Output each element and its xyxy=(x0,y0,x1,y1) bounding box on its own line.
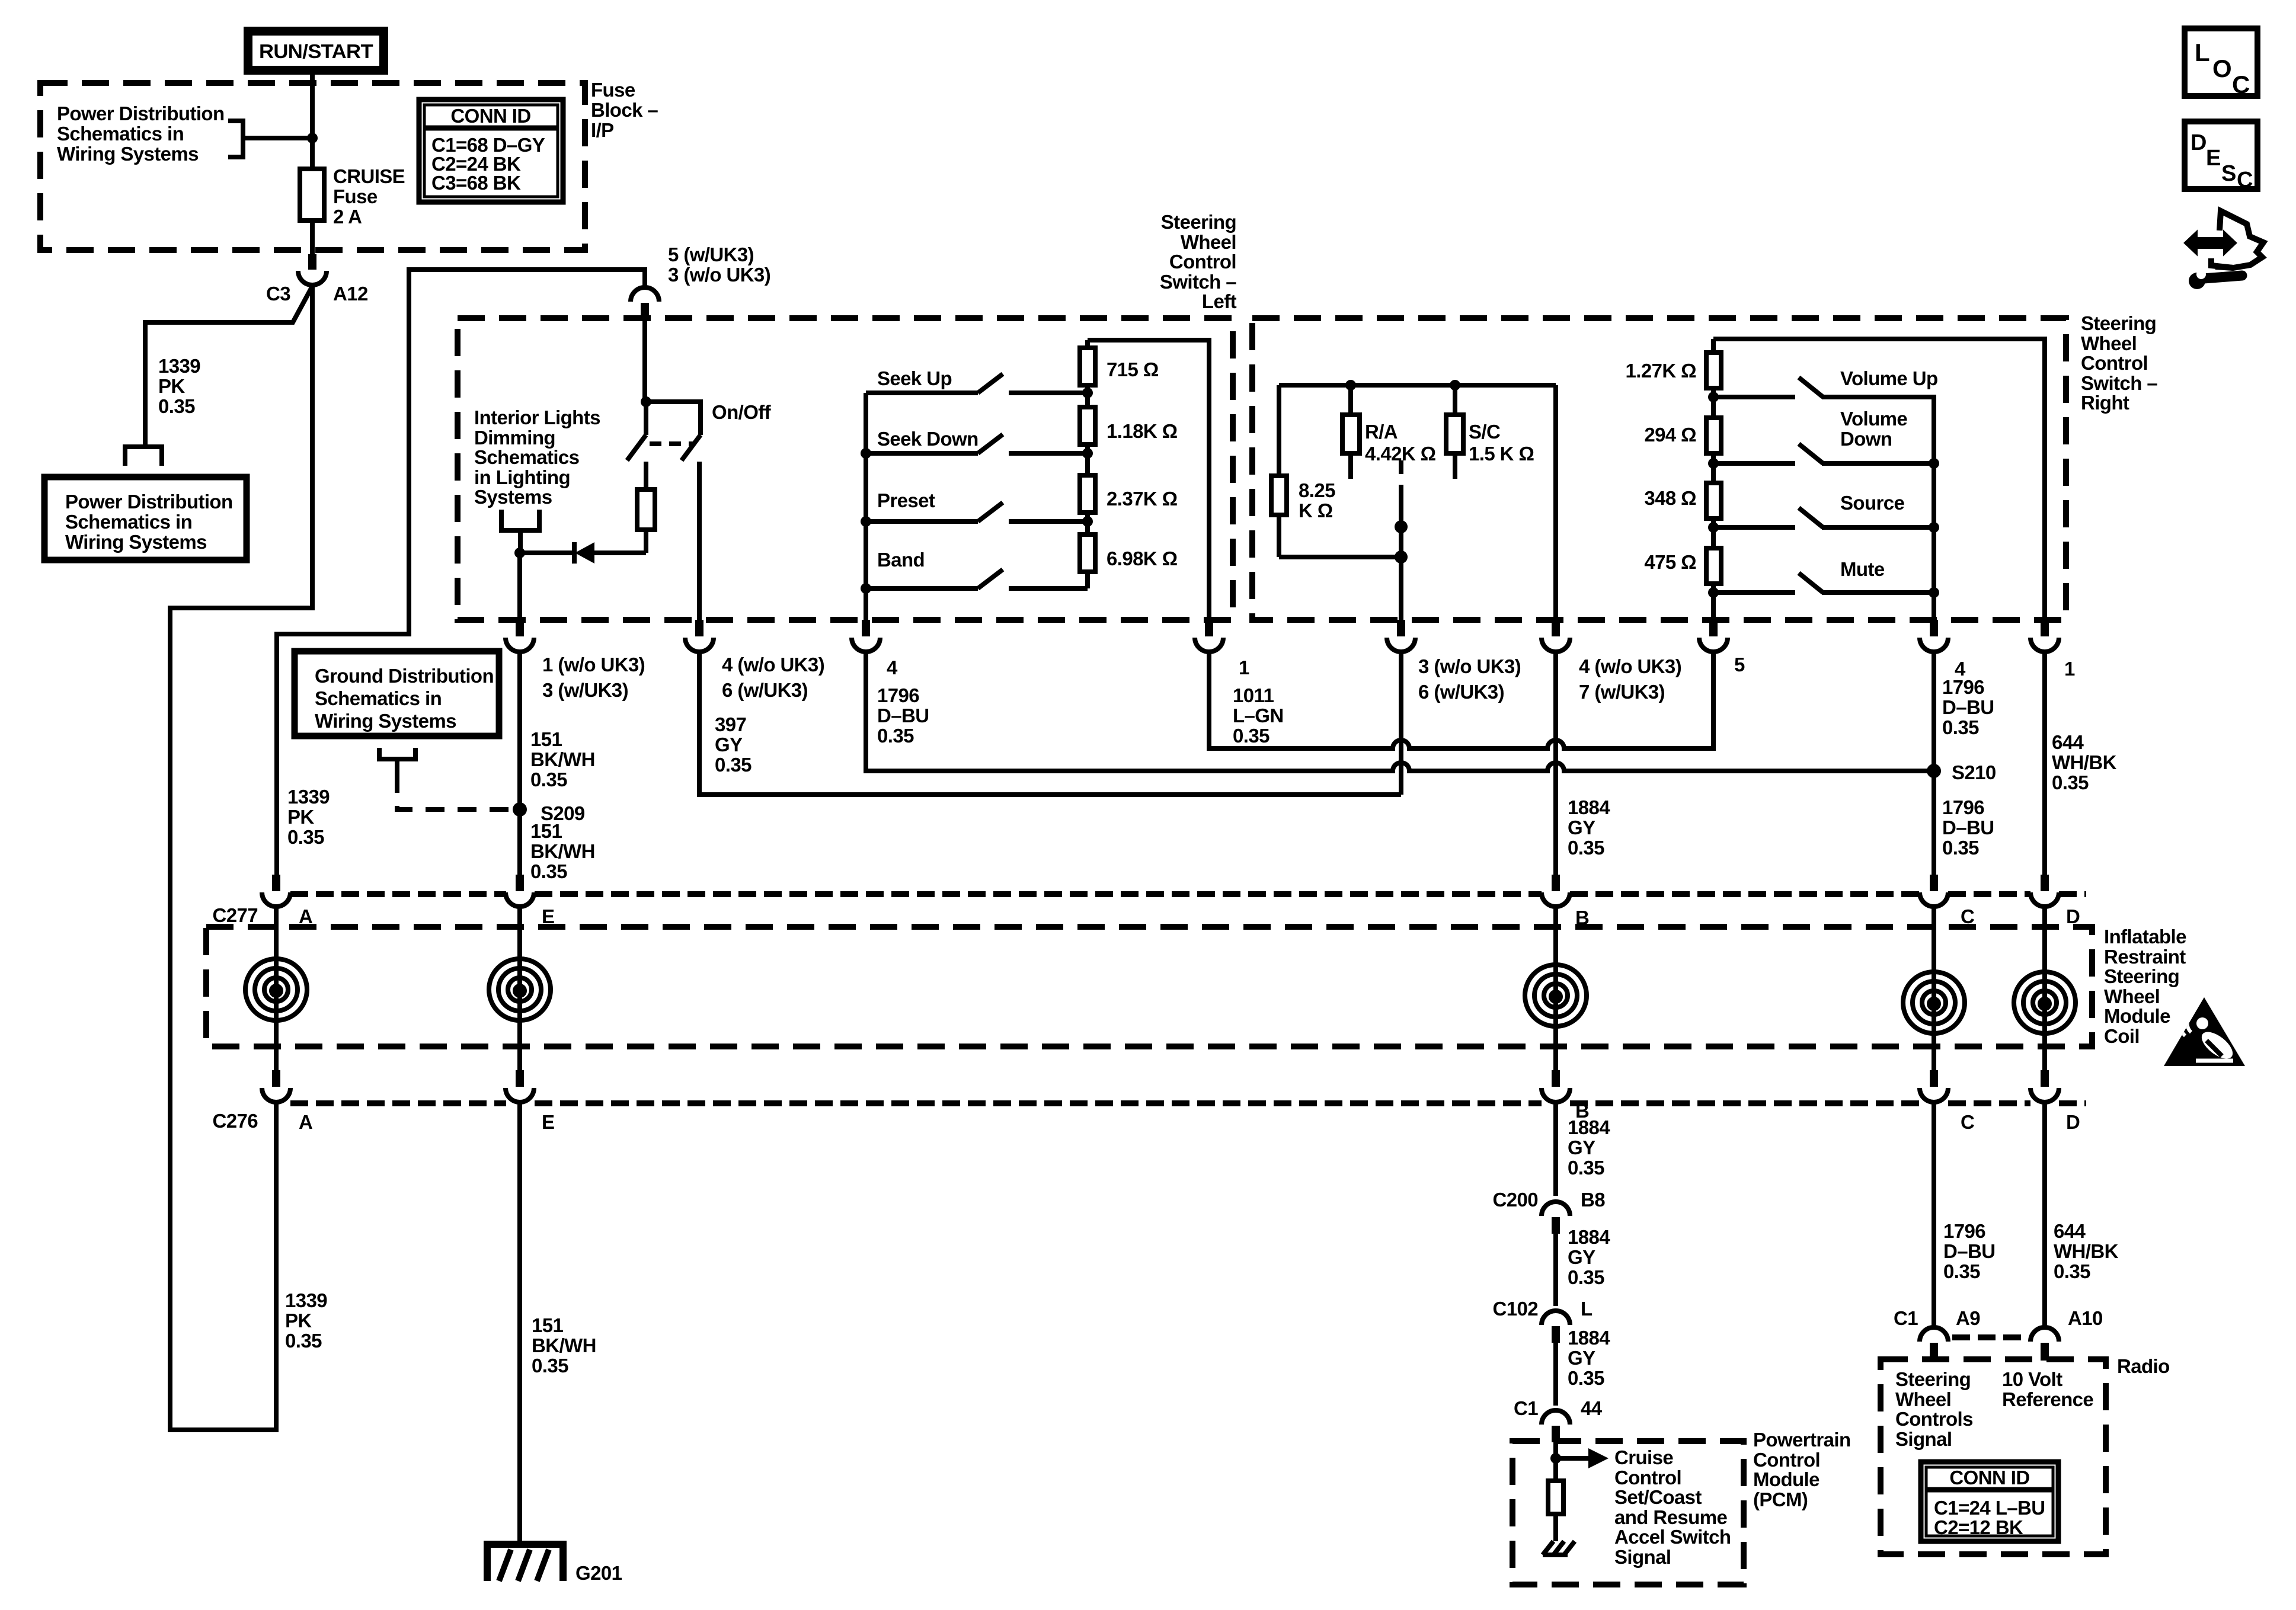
svg-text:Schematics: Schematics xyxy=(474,446,579,468)
svg-text:Mute: Mute xyxy=(1840,558,1885,580)
svg-text:1796: 1796 xyxy=(1942,796,1984,818)
svg-text:2.37K Ω: 2.37K Ω xyxy=(1107,488,1178,510)
svg-text:6.98K Ω: 6.98K Ω xyxy=(1107,548,1178,569)
coil E xyxy=(489,907,551,1070)
label 644 WH/BK 0.35 radio xyxy=(2054,1220,2119,1282)
label 1339 PK 0.35 above C277-A xyxy=(287,786,330,848)
connector 4 left box seek xyxy=(852,620,880,652)
svg-text:4 (w/o UK3): 4 (w/o UK3) xyxy=(722,654,824,676)
svg-text:E: E xyxy=(2206,146,2221,171)
label Steering Wheel Control Switch - Left xyxy=(1160,211,1237,312)
svg-text:C2=12 BK: C2=12 BK xyxy=(1934,1516,2023,1538)
svg-text:Wheel: Wheel xyxy=(1895,1388,1951,1410)
connector C1 pin 44 xyxy=(1542,1410,1570,1442)
svg-text:S: S xyxy=(2221,161,2236,186)
wire RUN/START to fuse xyxy=(310,75,315,169)
svg-text:Module: Module xyxy=(1753,1468,1819,1490)
label 5 (w/UK3) 3 (w/o UK3) xyxy=(668,244,770,286)
svg-text:Power Distribution: Power Distribution xyxy=(57,103,225,124)
icon DESC box xyxy=(2185,121,2257,193)
svg-text:C1=24 L–BU: C1=24 L–BU xyxy=(1934,1497,2045,1519)
svg-text:L–GN: L–GN xyxy=(1233,705,1284,726)
node junction dimming xyxy=(514,548,525,558)
svg-text:1339: 1339 xyxy=(287,786,330,808)
label Powertrain Control Module (PCM) xyxy=(1753,1429,1851,1510)
svg-text:0.35: 0.35 xyxy=(530,769,567,790)
svg-text:7 (w/UK3): 7 (w/UK3) xyxy=(1579,681,1665,703)
svg-text:1.27K Ω: 1.27K Ω xyxy=(1626,360,1697,382)
connector 1 (w/o UK3) 3 (w/UK3) xyxy=(506,620,534,652)
svg-text:Interior Lights: Interior Lights xyxy=(474,406,600,428)
svg-text:5: 5 xyxy=(1734,654,1745,676)
wire pin1 to right box pin 5 with hops xyxy=(1209,652,1713,748)
svg-text:0.35: 0.35 xyxy=(2054,1260,2090,1282)
svg-text:CONN ID: CONN ID xyxy=(1949,1467,2029,1489)
svg-text:1884: 1884 xyxy=(1568,1327,1610,1349)
connector row C277 dotted line xyxy=(290,891,2086,897)
reference box Ground Distribution Schematics in Wiring Systems xyxy=(295,651,499,736)
svg-text:1796: 1796 xyxy=(1943,1220,1985,1242)
label 1796 D-BU 0.35 radio xyxy=(1943,1220,1995,1282)
resistor 1.18K ohm xyxy=(1080,407,1095,475)
svg-text:and Resume: and Resume xyxy=(1614,1506,1727,1528)
resistor 8.25K ohm xyxy=(1271,385,1287,557)
resistor PCM pulldown xyxy=(1548,1458,1563,1541)
svg-text:BK/WH: BK/WH xyxy=(530,748,595,770)
svg-text:0.35: 0.35 xyxy=(1233,725,1269,747)
svg-text:WH/BK: WH/BK xyxy=(2052,751,2117,773)
label S/C 1.5 K ohm xyxy=(1469,421,1534,465)
linkage dashed On/Off xyxy=(650,441,693,446)
wire C276-B to C200 xyxy=(1553,1102,1558,1196)
svg-text:3 (w/UK3): 3 (w/UK3) xyxy=(542,679,628,701)
svg-text:Powertrain: Powertrain xyxy=(1753,1429,1851,1451)
svg-text:Left: Left xyxy=(1202,290,1237,312)
switch Mute xyxy=(1713,573,1939,620)
switch Seek Up xyxy=(866,374,1088,393)
svg-text:A12: A12 xyxy=(333,283,368,305)
reference box Power Distribution Schematics in Wiring Systems xyxy=(44,477,247,560)
svg-text:0.35: 0.35 xyxy=(532,1355,568,1377)
switch set/coast resume blade xyxy=(1395,460,1408,557)
node junction on trunk xyxy=(307,133,318,143)
wire branch from A12 to left reference xyxy=(145,286,312,446)
svg-text:GY: GY xyxy=(1568,1347,1595,1369)
svg-text:D–BU: D–BU xyxy=(1943,1240,1995,1262)
svg-text:Steering: Steering xyxy=(1895,1368,1971,1390)
svg-text:BK/WH: BK/WH xyxy=(532,1334,596,1356)
svg-text:BK/WH: BK/WH xyxy=(530,840,595,862)
connector 4 right box xyxy=(1920,620,1948,652)
svg-text:RUN/START: RUN/START xyxy=(259,40,373,62)
svg-text:C276: C276 xyxy=(213,1110,258,1132)
wire pin 4/7 down to C277-B xyxy=(1553,652,1558,875)
diode xyxy=(520,542,646,564)
svg-text:C102: C102 xyxy=(1493,1298,1539,1320)
label 1339 PK 0.35 below C276-A xyxy=(285,1289,327,1352)
svg-text:2 A: 2 A xyxy=(333,206,362,228)
wire C276-D to radio xyxy=(2042,1102,2047,1327)
svg-text:1796: 1796 xyxy=(877,684,919,706)
svg-text:6 (w/UK3): 6 (w/UK3) xyxy=(722,679,808,701)
svg-text:Control: Control xyxy=(2081,352,2148,374)
wire ladder top to pin 1 xyxy=(1088,340,1209,620)
svg-text:PK: PK xyxy=(285,1310,312,1331)
svg-text:GY: GY xyxy=(1568,1246,1595,1268)
wire set/coast bottom xyxy=(1279,550,1408,620)
connector C277-D xyxy=(2030,875,2059,907)
icon vehicle door and wrench xyxy=(2185,211,2263,289)
svg-text:G201: G201 xyxy=(575,1562,622,1584)
node ladder taps xyxy=(1082,388,1093,527)
svg-text:0.35: 0.35 xyxy=(1568,1367,1604,1389)
connector C276-B xyxy=(1542,1070,1570,1102)
svg-text:Steering: Steering xyxy=(2104,965,2179,987)
svg-text:B8: B8 xyxy=(1581,1189,1605,1211)
svg-text:Power Distribution: Power Distribution xyxy=(65,491,233,513)
wire left switch bus xyxy=(864,393,868,620)
wire pin 4 down through S210 to C277-C xyxy=(1932,652,1936,875)
dashed box Steering Wheel Control Switch - Left xyxy=(458,318,1233,620)
svg-text:in Lighting: in Lighting xyxy=(474,466,570,488)
connector C276-E xyxy=(506,1070,534,1102)
svg-text:4 (w/o UK3): 4 (w/o UK3) xyxy=(1579,655,1681,677)
switch Preset xyxy=(866,502,1088,521)
svg-text:Source: Source xyxy=(1840,492,1905,514)
dashed wire to S209 xyxy=(397,774,510,809)
wire fuse to connector xyxy=(310,220,315,255)
wire C102 to C1 xyxy=(1553,1343,1558,1406)
wire entry to On/Off xyxy=(642,319,647,402)
svg-text:151: 151 xyxy=(532,1314,564,1336)
connector row dashes radio xyxy=(1952,1334,2027,1340)
connector 4 (w/o UK3) 6 (w/UK3) left box xyxy=(685,620,714,652)
svg-text:44: 44 xyxy=(1581,1397,1603,1419)
svg-text:1011: 1011 xyxy=(1233,684,1274,706)
svg-text:397: 397 xyxy=(715,713,746,735)
svg-text:C: C xyxy=(1961,1111,1974,1133)
svg-text:0.35: 0.35 xyxy=(1942,837,1979,859)
svg-text:D: D xyxy=(2191,130,2207,155)
wire set/coast top bus xyxy=(1279,383,1556,388)
wire C276-E to G201 xyxy=(517,1102,522,1544)
label 151 BK/WH 0.35 ground wire xyxy=(532,1314,596,1377)
dashed box Radio xyxy=(1881,1359,2106,1554)
node bus taps xyxy=(861,448,871,594)
svg-text:0.35: 0.35 xyxy=(877,725,914,747)
svg-text:Accel Switch: Accel Switch xyxy=(1614,1526,1731,1548)
label 10 Volt Reference xyxy=(2002,1368,2093,1410)
svg-text:C1: C1 xyxy=(1514,1397,1538,1419)
svg-text:R/A: R/A xyxy=(1365,421,1398,443)
svg-text:4: 4 xyxy=(887,657,898,678)
svg-text:C3=68 BK: C3=68 BK xyxy=(431,172,521,194)
svg-text:Preset: Preset xyxy=(877,489,935,511)
connector 1 right box xyxy=(2030,620,2059,652)
svg-text:1: 1 xyxy=(1239,657,1249,678)
svg-text:1.5 K Ω: 1.5 K Ω xyxy=(1469,443,1534,465)
svg-text:Radio: Radio xyxy=(2117,1355,2170,1377)
coil D xyxy=(2014,907,2076,1070)
connector 1 left box xyxy=(1195,620,1223,652)
svg-text:Band: Band xyxy=(877,549,925,571)
node PCM junction xyxy=(1550,1453,1561,1464)
svg-text:Volume Up: Volume Up xyxy=(1840,367,1938,389)
svg-text:1884: 1884 xyxy=(1568,1226,1610,1248)
conn id table radio xyxy=(1921,1462,2058,1541)
svg-text:151: 151 xyxy=(530,820,562,842)
wire pin 3/6 down to corner xyxy=(1399,652,1403,795)
label 1884 GY 0.35 xyxy=(1568,1226,1610,1288)
svg-text:715 Ω: 715 Ω xyxy=(1107,359,1159,380)
label 1 (w/o UK3) 3 (w/UK3) xyxy=(542,654,645,701)
svg-text:Switch –: Switch – xyxy=(1160,271,1236,293)
svg-text:C277: C277 xyxy=(213,904,258,926)
svg-text:On/Off: On/Off xyxy=(712,401,772,423)
resistor 475 ohm xyxy=(1706,548,1721,620)
wire pin 1 down to C277-D xyxy=(2042,652,2047,875)
splice S210 xyxy=(1927,764,1941,778)
connector 3 (w/o UK3) 6 (w/UK3) right box xyxy=(1387,620,1415,652)
svg-text:0.35: 0.35 xyxy=(158,395,195,417)
label 1796 D-BU 0.35 below S210 xyxy=(1942,796,1994,859)
svg-text:C: C xyxy=(2237,168,2253,193)
splice S209 xyxy=(513,802,527,817)
svg-text:Module: Module xyxy=(2104,1005,2170,1027)
svg-text:A: A xyxy=(299,1111,312,1133)
label 4 (w/o UK3) 6 (w/UK3) xyxy=(722,654,824,701)
svg-text:475 Ω: 475 Ω xyxy=(1644,551,1696,573)
svg-text:10 Volt: 10 Volt xyxy=(2002,1368,2062,1390)
connector radio A10 xyxy=(2030,1327,2059,1361)
svg-text:Right: Right xyxy=(2081,392,2129,414)
power feed box RUN/START xyxy=(244,27,388,75)
connector C277-B xyxy=(1542,875,1570,907)
svg-text:Wheel: Wheel xyxy=(1181,231,1236,253)
node ladder taps right xyxy=(1708,392,1719,598)
connector entry 5 w/UK3 3 w/o UK3 xyxy=(631,287,659,320)
svg-text:0.35: 0.35 xyxy=(2052,772,2089,793)
wire pin 4/7 right box xyxy=(1553,385,1558,620)
label 151 BK/WH 0.35 xyxy=(530,820,595,882)
connector C277-C xyxy=(1920,875,1948,907)
label 644 WH/BK 0.35 xyxy=(2052,731,2117,793)
connector radio A9 xyxy=(1920,1327,1948,1361)
connector C276-D xyxy=(2030,1070,2059,1102)
label Steering Wheel Control Switch - Right xyxy=(2081,312,2157,414)
label Cruise Control Set/Coast and Resume Accel Switch Signal xyxy=(1614,1446,1731,1568)
label 1339 PK 0.35 xyxy=(158,355,200,417)
svg-text:Ground Distribution: Ground Distribution xyxy=(315,665,494,687)
connector C276-C xyxy=(1920,1070,1948,1102)
svg-text:0.35: 0.35 xyxy=(287,826,324,848)
svg-text:A10: A10 xyxy=(2068,1307,2103,1329)
svg-text:C1: C1 xyxy=(1894,1307,1918,1329)
connector C277-A xyxy=(262,875,290,907)
svg-text:644: 644 xyxy=(2054,1220,2086,1242)
label 8.25 K ohm xyxy=(1299,479,1335,521)
wire 1796 to S210 with hops xyxy=(866,652,1933,771)
svg-text:348 Ω: 348 Ω xyxy=(1644,487,1696,509)
svg-text:3 (w/o UK3): 3 (w/o UK3) xyxy=(1418,655,1521,677)
svg-text:Dimming: Dimming xyxy=(474,427,555,449)
svg-text:CRUISE: CRUISE xyxy=(333,165,405,187)
resistor 2.37K ohm xyxy=(1080,475,1095,534)
ground PCM internal xyxy=(1543,1541,1575,1555)
switch Seek Down xyxy=(866,434,1088,453)
svg-text:Controls: Controls xyxy=(1895,1408,1973,1430)
svg-text:Fuse: Fuse xyxy=(333,185,378,207)
wire 397 GY to right box pin 3/6 xyxy=(699,652,1401,795)
svg-text:5 (w/UK3): 5 (w/UK3) xyxy=(668,244,754,265)
svg-text:1339: 1339 xyxy=(285,1289,327,1311)
label Interior Lights Dimming Schematics in Lighting Systems xyxy=(474,406,600,508)
switch Volume Down xyxy=(1713,444,1939,527)
svg-text:Restraint: Restraint xyxy=(2104,946,2186,968)
svg-text:Schematics in: Schematics in xyxy=(57,123,184,145)
svg-text:Seek Up: Seek Up xyxy=(877,367,952,389)
svg-text:S210: S210 xyxy=(1952,761,1996,783)
svg-text:Systems: Systems xyxy=(474,486,552,508)
dashed box Fuse Block I/P xyxy=(40,83,585,250)
wire volume ladder top to pin 1 xyxy=(1713,339,2045,620)
svg-text:C3: C3 xyxy=(266,283,290,305)
wire 151 BK/WH to S209 xyxy=(517,652,522,809)
svg-text:Coil: Coil xyxy=(2104,1025,2140,1047)
fuse CRUISE 2A xyxy=(300,169,324,220)
svg-text:1339: 1339 xyxy=(158,355,200,377)
svg-text:Wiring Systems: Wiring Systems xyxy=(65,531,207,553)
svg-text:Wheel: Wheel xyxy=(2081,332,2137,354)
switch Volume Up xyxy=(1713,377,1934,463)
svg-text:Volume: Volume xyxy=(1840,408,1907,430)
reference bracket to power distribution box xyxy=(125,447,162,466)
svg-text:D–BU: D–BU xyxy=(1942,817,1994,838)
svg-text:GY: GY xyxy=(1568,817,1595,838)
svg-text:L: L xyxy=(2195,39,2210,66)
svg-text:D–BU: D–BU xyxy=(877,705,929,726)
svg-text:D: D xyxy=(2066,1111,2080,1133)
svg-text:D–BU: D–BU xyxy=(1942,696,1994,718)
svg-text:Fuse: Fuse xyxy=(591,79,635,101)
wire A12 trunk down and around left side xyxy=(170,285,312,1430)
wire into PCM xyxy=(1553,1442,1558,1458)
coil B xyxy=(1525,907,1587,1070)
svg-text:O: O xyxy=(2212,55,2232,82)
ground G201 xyxy=(484,1544,567,1581)
connector C276-A xyxy=(262,1070,290,1102)
wire bracket to trunk xyxy=(243,136,312,140)
connector row C276 dotted line xyxy=(290,1100,2086,1106)
svg-text:Wheel: Wheel xyxy=(2104,985,2160,1007)
svg-text:(PCM): (PCM) xyxy=(1753,1489,1808,1510)
svg-text:S/C: S/C xyxy=(1469,421,1500,443)
svg-text:0.35: 0.35 xyxy=(285,1330,322,1352)
svg-text:Schematics in: Schematics in xyxy=(315,687,442,709)
svg-text:Inflatable: Inflatable xyxy=(2104,926,2186,948)
svg-text:1 (w/o UK3): 1 (w/o UK3) xyxy=(542,654,645,676)
label 397 GY 0.35 xyxy=(715,713,752,776)
svg-text:CONN ID: CONN ID xyxy=(450,105,530,127)
conn id table fuse block xyxy=(419,100,563,202)
svg-text:C: C xyxy=(2232,71,2250,98)
reference bracket xyxy=(228,121,243,157)
connector C277-E xyxy=(506,875,534,907)
svg-text:0.35: 0.35 xyxy=(1568,1157,1604,1179)
svg-text:Schematics in: Schematics in xyxy=(65,511,192,533)
label Inflatable Restraint Steering Wheel Module Coil xyxy=(2104,926,2186,1047)
connector C102 pin L xyxy=(1542,1311,1570,1343)
label 1011 L-GN 0.35 xyxy=(1233,684,1284,747)
label Steering Wheel Controls Signal xyxy=(1895,1368,1973,1450)
wire top feed to switch box entry xyxy=(277,270,645,875)
svg-text:GY: GY xyxy=(715,734,743,756)
svg-text:Steering: Steering xyxy=(1161,211,1236,233)
svg-text:Wiring Systems: Wiring Systems xyxy=(315,710,456,732)
svg-text:294 Ω: 294 Ω xyxy=(1644,424,1696,446)
label 3 (w/o UK3) 6 (w/UK3) xyxy=(1418,655,1521,703)
wire dimming junction to box exit xyxy=(517,553,522,620)
connector C200 pin B8 xyxy=(1542,1202,1570,1234)
label 1796 D-BU 0.35 xyxy=(877,684,929,747)
svg-text:K Ω: K Ω xyxy=(1299,500,1333,521)
svg-text:I/P: I/P xyxy=(591,119,614,141)
svg-text:151: 151 xyxy=(530,728,562,750)
dashed box Steering Wheel Control Switch - Right xyxy=(1252,318,2066,620)
svg-text:Signal: Signal xyxy=(1614,1546,1671,1568)
svg-text:L: L xyxy=(1581,1298,1593,1320)
resistor dimming xyxy=(637,462,655,553)
label Fuse Block - I/P xyxy=(591,79,658,141)
wire C200 to C102 xyxy=(1553,1234,1558,1306)
resistor S/C 1.5K xyxy=(1446,380,1463,479)
svg-text:8.25: 8.25 xyxy=(1299,479,1335,501)
svg-text:PK: PK xyxy=(158,375,185,397)
svg-text:1796: 1796 xyxy=(1942,676,1984,698)
label Power Distribution Schematics in Wiring Systems xyxy=(57,103,225,165)
switch Band xyxy=(866,569,1088,588)
svg-text:Seek Down: Seek Down xyxy=(877,428,978,450)
svg-text:Block –: Block – xyxy=(591,99,658,121)
coil C xyxy=(1903,907,1965,1070)
svg-text:GY: GY xyxy=(1568,1137,1595,1158)
svg-text:E: E xyxy=(542,1111,554,1133)
svg-text:1.18K Ω: 1.18K Ω xyxy=(1107,420,1178,442)
resistor 294 ohm xyxy=(1706,418,1721,483)
svg-text:0.35: 0.35 xyxy=(530,860,567,882)
dashed box Inflatable Restraint Steering Wheel Module Coil xyxy=(206,927,2092,1046)
resistor R/A 4.42K xyxy=(1342,380,1360,479)
svg-text:0.35: 0.35 xyxy=(1568,837,1604,859)
label 1884 GY 0.35 xyxy=(1568,796,1610,859)
connector C3 pin A12 xyxy=(298,254,327,285)
svg-text:Reference: Reference xyxy=(2002,1388,2093,1410)
svg-text:644: 644 xyxy=(2052,731,2084,753)
label 1884 GY 0.35 xyxy=(1568,1116,1610,1179)
svg-text:Steering: Steering xyxy=(2081,312,2156,334)
svg-text:Control: Control xyxy=(1753,1449,1820,1471)
signal arrow cruise control xyxy=(1556,1448,1609,1468)
connector 5 right box xyxy=(1699,620,1728,652)
switch On/Off two-pole xyxy=(627,396,701,620)
svg-text:1: 1 xyxy=(2064,658,2075,680)
switch Source xyxy=(1713,508,1939,593)
svg-text:0.35: 0.35 xyxy=(1942,716,1979,738)
label Volume Down xyxy=(1840,408,1907,450)
svg-text:PK: PK xyxy=(287,806,314,828)
svg-text:0.35: 0.35 xyxy=(1943,1260,1980,1282)
svg-text:Switch –: Switch – xyxy=(2081,372,2157,394)
